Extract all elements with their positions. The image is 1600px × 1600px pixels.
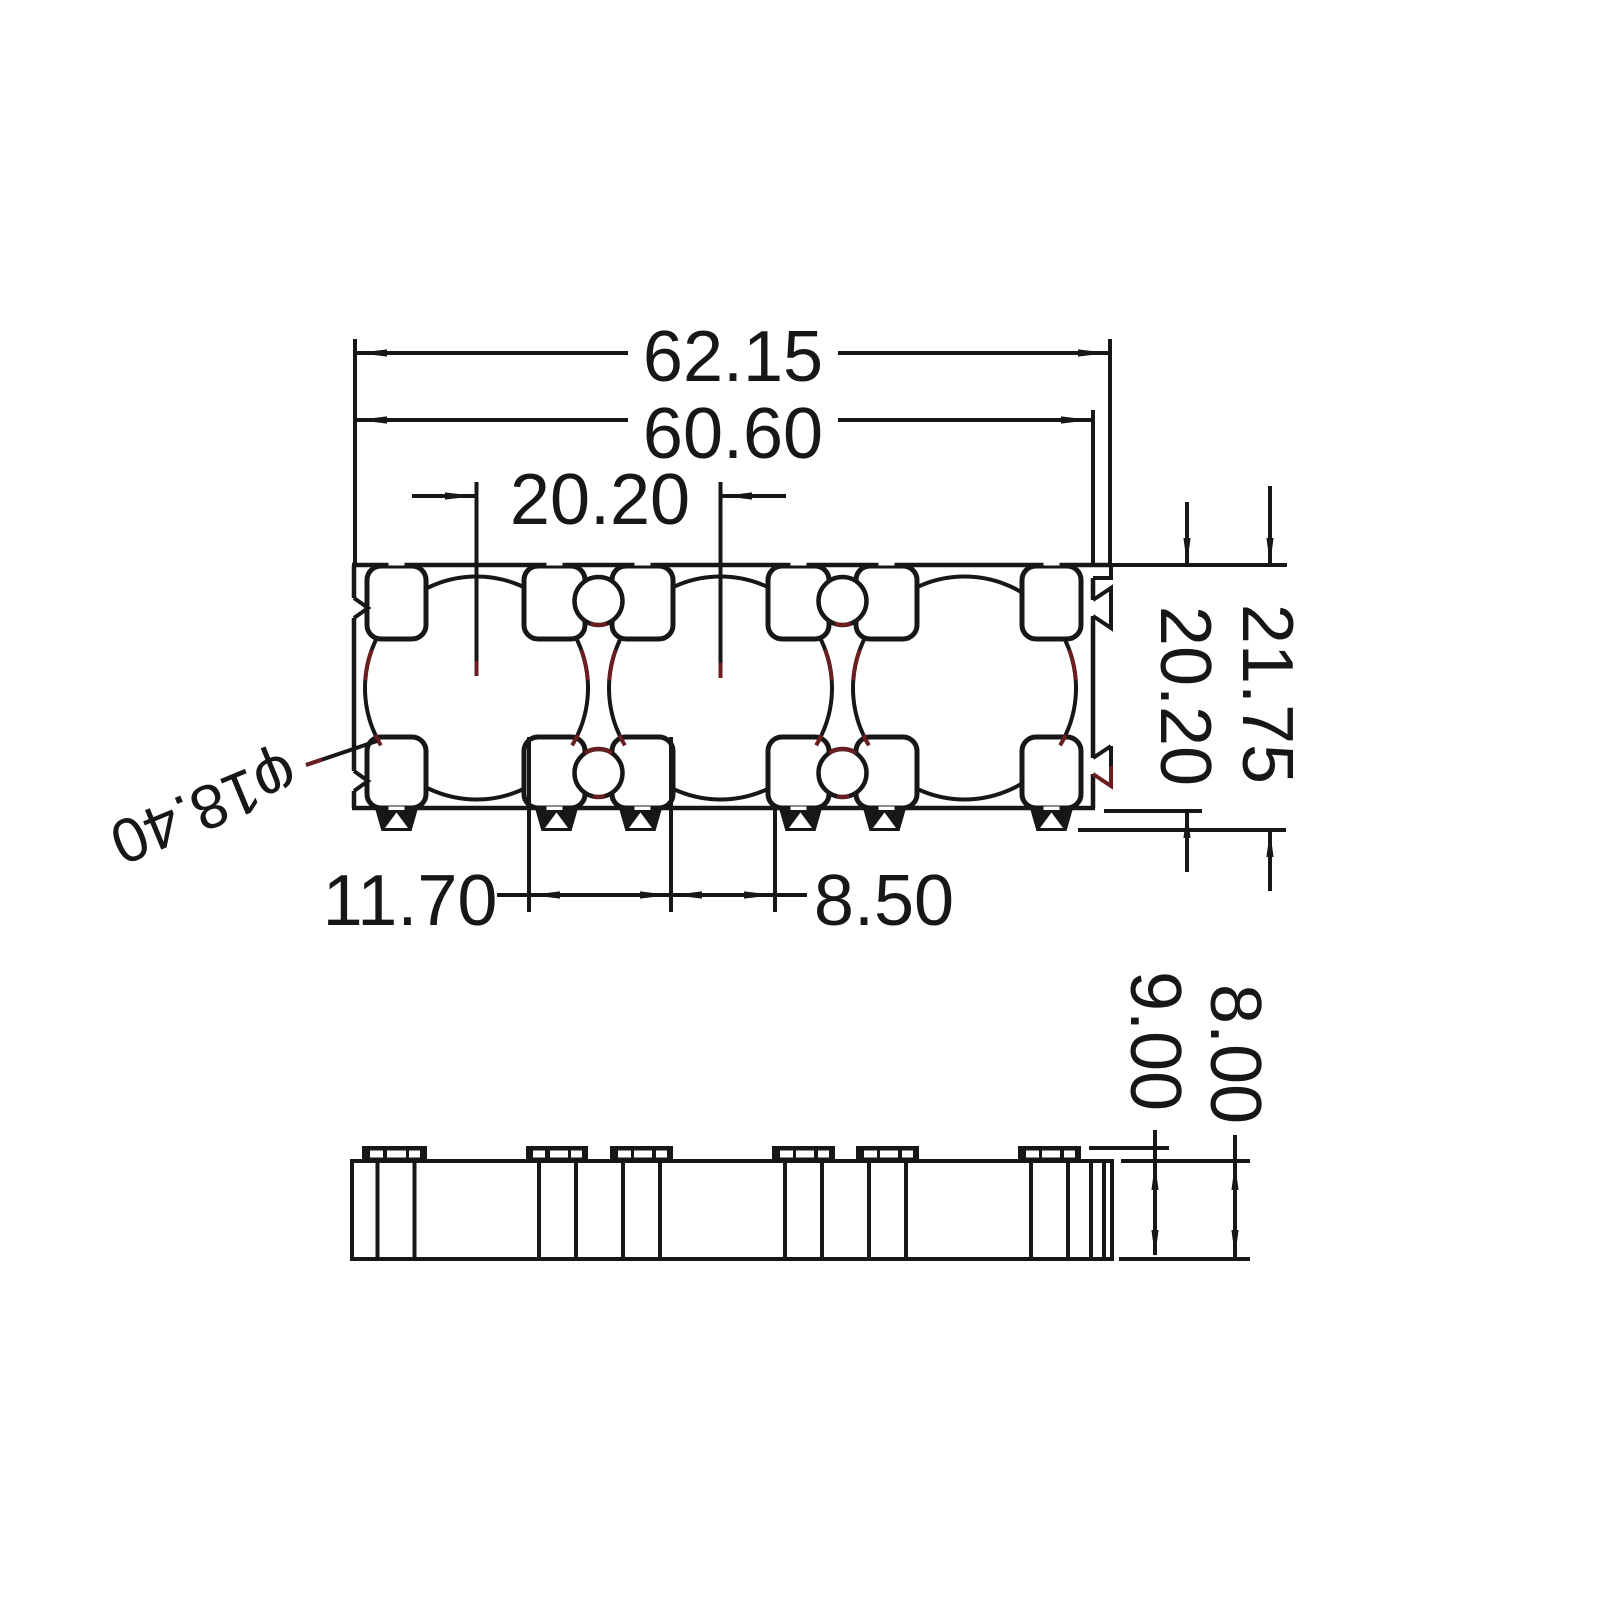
pad B6 <box>1022 737 1081 808</box>
foot at 396.5 <box>376 810 418 831</box>
pad T6 <box>1022 566 1081 639</box>
dim 8.00 <box>1121 1159 1250 1163</box>
hidden arc c1 left upper <box>365 650 371 680</box>
svg-text:21.75: 21.75 <box>1227 604 1307 784</box>
foot at 884.5 <box>864 810 906 831</box>
side tab 4 <box>772 1146 835 1161</box>
pad T2 <box>524 566 585 639</box>
dim 8.50 <box>672 891 702 898</box>
dim 20.20 pitch <box>475 482 479 661</box>
side tab 5 <box>856 1146 919 1161</box>
body outline top edge <box>352 563 1111 568</box>
pad B1 <box>367 737 426 808</box>
hidden arc c3 left upper <box>853 650 859 680</box>
svg-text:62.15: 62.15 <box>643 317 823 397</box>
pad B5 <box>856 737 917 808</box>
wall slots over pads <box>389 561 405 566</box>
right vertical dims 21.75 / 20.20 <box>1104 563 1287 567</box>
small locator circles at cell junctions <box>575 577 623 625</box>
foot at 1051.5 <box>1031 810 1073 831</box>
dim 9.00 <box>1089 1146 1169 1150</box>
body right wall <box>1091 578 1096 808</box>
hidden arc c1 left lower <box>375 735 381 745</box>
right dovetail tab upper <box>1093 588 1111 628</box>
dim 62.15 <box>353 339 357 563</box>
cell circle 1 (18650 bore) <box>365 577 588 800</box>
foot at 800.5 <box>780 810 822 831</box>
hidden arcs small circles <box>585 749 612 753</box>
pad B2 <box>524 737 585 808</box>
svg-text:11.70: 11.70 <box>323 861 498 941</box>
pad T4 <box>768 566 829 639</box>
pad B4 <box>768 737 829 808</box>
hidden arc c3 right lower <box>1060 735 1066 745</box>
hidden arc c1 right upper <box>581 650 587 680</box>
side tab 3 <box>610 1146 673 1161</box>
cell circle 2 (18650 bore) <box>609 577 832 800</box>
pad B3 <box>612 737 673 808</box>
svg-text:9.00: 9.00 <box>1115 971 1195 1111</box>
svg-text:20.20: 20.20 <box>510 460 690 540</box>
hidden arc c2 left upper <box>609 650 615 680</box>
svg-text:8.00: 8.00 <box>1195 984 1275 1124</box>
pad T1 <box>367 566 426 639</box>
side tab 2 <box>526 1146 588 1161</box>
side view internal post lines <box>376 1161 380 1259</box>
cell circle 3 (18650 bore) <box>853 577 1076 800</box>
left dovetail socket lower <box>354 771 368 791</box>
hidden arc c2 right lower <box>816 735 822 745</box>
body bottom edge <box>352 806 1095 811</box>
dim 60.60 <box>1091 410 1095 563</box>
right dovetail tab lower (hidden, maroon) <box>1093 746 1111 758</box>
side tab 1 <box>362 1146 427 1161</box>
hidden arc c3 left lower <box>863 735 869 745</box>
body top-right corner ear <box>1093 565 1111 578</box>
pad T5 <box>856 566 917 639</box>
svg-text:φ18.40: φ18.40 <box>101 739 308 878</box>
hidden arc c2 left lower <box>619 735 625 745</box>
hidden arc c3 right upper <box>1069 650 1075 680</box>
leader phi18.40 <box>306 741 377 765</box>
foot at 640.5 <box>620 810 662 831</box>
hidden arc c1 right lower <box>572 735 578 745</box>
hidden arc c2 right upper <box>825 650 831 680</box>
dim 11.70 <box>527 737 531 912</box>
side tab 6 <box>1018 1146 1081 1161</box>
body left wall <box>352 565 357 808</box>
svg-text:20.20: 20.20 <box>1145 606 1225 786</box>
pad T3 <box>612 566 673 639</box>
side view body <box>352 1161 1112 1259</box>
svg-text:8.50: 8.50 <box>814 861 954 941</box>
left dovetail socket upper <box>354 598 368 618</box>
foot at 556.5 <box>536 810 578 831</box>
